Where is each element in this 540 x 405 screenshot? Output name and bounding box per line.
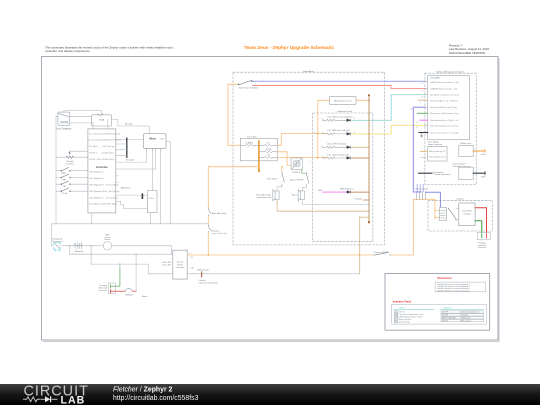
controller right stubs [116,176,119,182]
svg-text:Team Zeus - Zephyr Upgrade Sch: Team Zeus - Zephyr Upgrade Schematic [244,45,335,51]
line contactor K1 [58,112,70,125]
svg-text:FWD: FWD [61,173,66,175]
wire: - wire thick [473,172,485,174]
chassis ground tick [201,272,203,277]
wire: junction box to bus [150,213,152,224]
fuse box bus [258,141,260,170]
wire: orange main bus to charger [187,199,435,255]
svg-text:24: 24 [322,157,324,159]
wire: indicator feed rail [318,100,369,158]
motor pins [147,149,161,151]
svg-text:Horn Switch: Horn Switch [267,177,277,180]
switch FS1 [61,181,71,185]
horn LS1 [273,190,279,201]
DC/DC converter U3 [173,250,187,279]
buzzer switch [306,173,309,186]
svg-text:Connector: Connector [478,246,487,249]
svg-text:Encoder: Encoder [126,159,134,162]
svg-text:P10 Controller (Position Erro: P10 Controller (Position Error 0 plus) [396,313,424,316]
svg-text:BMS Ground: BMS Ground [198,269,209,272]
svg-text:Main Power In (Switch): Main Power In (Switch) [239,86,259,89]
fuse 5V L [259,144,277,146]
svg-text:Indicator Panel: Indicator Panel [337,110,352,113]
svg-text:Buzzer: Buzzer [292,195,298,197]
svg-text:Fi-call Aux 1 (12V) (LED logic: Fi-call Aux 1 (12V) (LED logic) [89,203,117,206]
svg-text:7 kΩ Stop Discharge (red): 7 kΩ Stop Discharge (red) [327,153,349,156]
svg-text:A Battery Overheat: A Battery Overheat [396,318,412,321]
wire: battery parallel loop [70,246,91,264]
fuse 24 BMS [240,144,259,146]
fuse box [240,138,277,161]
svg-text:Thermistors: Thermistors [437,276,453,280]
svg-text:LAB: LAB [61,394,86,405]
svg-text:Orion BMS: Orion BMS [430,76,440,79]
fuse 24 5V [259,151,277,153]
wire: purple BMS to connector [417,185,423,192]
wire: sense stubs [420,150,428,152]
wire: blue run to charger [413,107,425,192]
fuse 24 V [259,156,277,158]
svg-text:Battery Management System: Battery Management System [436,70,464,73]
main indicator circuit [330,96,357,104]
wire: green lamp to buzzer switch [302,169,307,173]
wire: pack + to DC/DC [70,253,173,255]
Zivan NG1 charger [459,203,475,226]
svg-text:Motor: Motor [149,137,156,140]
wire: charger green out [475,221,482,233]
svg-text:Zivan NG1: Zivan NG1 [462,211,472,213]
charger enclosure [428,200,492,231]
svg-text:12V/6W S: 12V/6W S [292,172,301,174]
resistor (pre-charge) wire [118,120,149,134]
buzzer LS2 [298,190,304,201]
wire: rail into ED [51,240,53,246]
svg-text:Charger ON/OFF: Charger ON/OFF [374,251,389,254]
switch FWD [61,168,71,172]
wire: CAN A with shield [116,194,148,196]
svg-text:Sevcon: Sevcon [177,262,184,264]
svg-text:Batteries: Batteries [75,250,85,253]
wire: controller to motor phase [116,138,144,140]
svg-text:24: 24 [410,109,412,111]
svg-text:+24 Encoder 1: +24 Encoder 1 [101,152,115,155]
wire: SW [56,190,88,192]
svg-text:http://circuitlab.com/c558fs3: http://circuitlab.com/c558fs3 [113,395,199,402]
tables block [385,274,490,331]
wire: fuse bus bottom to wiper branch [208,167,259,255]
svg-text:FT. Atx: FT. Atx [62,192,68,195]
switch REV [61,174,71,178]
wire: tan row3 to bus [352,146,369,148]
svg-text:24: 24 [422,96,424,98]
fuse F1 400A [92,114,112,127]
svg-text:48V/5V Power (aux switch 1) -: 48V/5V Power (aux switch 1) - En [430,81,458,84]
svg-text:Disconnect: Disconnect [53,240,63,243]
svg-text:LED (Signals) 1: LED (Signals) 1 [89,172,104,174]
svg-text:DC/5V 1: DC/5V 1 [89,153,98,155]
svg-text:400A: 400A [99,119,105,122]
svg-text:Line Contactor: Line Contactor [56,127,71,130]
svg-text:MaxTemp analysis (curr 1 pin 1: MaxTemp analysis (curr 1 pin 15) [430,124,458,127]
wire: motor B- to bus [166,142,170,224]
svg-text:TL/Studio: TL/Studio [354,197,362,200]
charger on/off switch [374,252,391,255]
wire: controller B- down [91,213,93,224]
front assy enclosure [233,72,385,245]
svg-text:ON/OFF: ON/OFF [442,312,448,314]
svg-text:controller, and display compon: controller, and display components. [45,49,91,53]
junction dots battery loop [69,245,70,246]
svg-text:DC Input: DC Input [89,145,98,148]
wire: fuse out to controller B+ [108,120,118,129]
svg-text:Fletcher / Zephyr 2: Fletcher / Zephyr 2 [113,386,173,393]
ground arrow [420,133,422,137]
svg-text:LED (Signals) 5 5V Out (R 5: LED (Signals) 5 5V Out (R 5) [89,196,117,199]
wiper switch 2 [208,225,210,232]
svg-text:Main Indicator Circuit: Main Indicator Circuit [334,99,352,102]
svg-text:100A CB: 100A CB [125,293,133,296]
svg-text:Throttle: Throttle [66,160,74,163]
svg-text:Sense Connector: Sense Connector [428,143,443,146]
wire: CAN B staircase [116,201,148,208]
wire: rail to emergency disconnect [50,224,52,240]
svg-text:CAN block 1: CAN block 1 [120,186,131,189]
svg-text:LED (Signals) 3 12V Out (Rev: LED (Signals) 3 12V Out (Rev) [89,183,118,186]
wire: row5 to bus [351,191,369,193]
wire: fuse out top to indicator row2 feed [277,134,326,146]
wiper switch 1 [208,208,210,216]
wire: brown row4 to bus [352,157,369,159]
svg-text:Main Drive A (curr 13 - 15.8): Main Drive A (curr 13 - 15.8) B R [430,100,458,103]
wire: FWD [56,170,88,172]
wire: B- return bus [51,223,208,225]
svg-text:(clear front of gnd limit): (clear front of gnd limit) [199,281,219,284]
svg-text:9: 9 [421,102,422,104]
svg-text:Main positive pin 10: Main positive pin 10 [429,150,445,153]
svg-text:Connector: Connector [98,289,107,292]
svg-text:Converter: Converter [176,266,185,269]
wire: motor pins down [152,151,160,224]
wire: throttle wiper [70,150,88,152]
indicator power bus [368,96,370,221]
throttle potentiometer [66,151,73,158]
svg-text:Warning pin 5 (dis) (temp err: Warning pin 5 (dis) (temp err 1 p) [430,112,458,115]
svg-text:(wiper On/Off switch): (wiper On/Off switch) [212,232,228,235]
wire: lower rail to ground run [91,264,148,274]
svg-text:OPTION: OPTION [442,320,449,322]
svg-text:− Wire: − Wire [480,175,486,178]
wire: orange into charger [435,199,440,219]
svg-text:15: 15 [416,127,418,129]
wire: motor sense to controller [116,151,156,169]
svg-text:NON-FINALIZED VERSION: NON-FINALIZED VERSION [449,51,485,55]
svg-text:B+ Connector (48V-58V Power In: B+ Connector (48V-58V Power In) [89,132,120,135]
wire: chassis ground run [148,273,360,275]
svg-text:Indicator Panel: Indicator Panel [393,299,412,303]
svg-text:Buzzer ON/OFF: Buzzer ON/OFF [290,178,304,181]
wire: charging red + breaker [111,290,126,292]
lamp 12V/6W [291,158,302,170]
svg-text:(short blown avail): (short blown avail) [256,196,271,199]
wire: orange main power feed [228,84,237,145]
wire: tan stub pin 4 [419,99,428,101]
schematic frame [42,57,499,341]
charging external connector J6 [477,233,490,240]
svg-text:+ Wire: + Wire [480,153,486,156]
left rail [55,116,57,224]
frame shadow [43,59,499,342]
wire: charger red out [475,208,486,233]
wire: green stub to BMS [417,112,428,114]
svg-text:LED (Signals) 2: LED (Signals) 2 [89,178,104,180]
wire: battery + top rail [56,115,92,117]
svg-text:Charger: Charger [463,213,471,215]
indicator panel enclosure [313,113,373,242]
svg-text:7 kΩ BMS Error Code (red): 7 kΩ BMS Error Code (red) [327,130,350,132]
svg-text:24 [BMS]: 24 [BMS] [246,143,253,145]
svg-text:ON/OFF: ON/OFF [442,315,448,317]
wire: REV [56,177,88,179]
svg-text:P10 BMS (Registered Error Cod: P10 BMS (Registered Error Codes) [396,316,423,319]
BMS U2 [428,76,470,140]
svg-text:Label04 | thermistor 4 measuri: Label04 | thermistor 4 measuring battery… [437,289,470,292]
svg-text:10 kΩ BHO ON (white): 10 kΩ BHO ON (white) [327,143,347,146]
svg-text:24: 24 [314,132,316,134]
svg-text:Resistor: Resistor [125,123,133,126]
wire: magenta stub to BMS [420,119,428,121]
wire: red aux to BMS [253,86,425,89]
svg-text:Sensor: Sensor [104,238,110,241]
svg-text:0 to 5K Ω: 0 to 5K Ω [65,163,74,166]
svg-text:DC/DC: DC/DC [177,264,184,266]
charger relay K2 [440,208,447,221]
svg-text:CELL 1 (curr 01-16, 17 - maj c: CELL 1 (curr 01-16, 17 - maj cell) [430,131,458,134]
BMS current sensor [103,242,111,250]
svg-text:Charger A (Pump) 1 (pin 8 - di: Charger A (Pump) 1 (pin 8 - dis) [430,106,457,109]
svg-text:24: 24 [422,83,424,85]
indicator row pin numbers [311,118,356,162]
wire: purple key-on to BMS [253,80,425,82]
BMS pin ticks [425,81,428,125]
svg-text:24 Wire: 24 Wire [148,197,154,200]
svg-text:FS1: FS1 [63,186,66,188]
svg-text:Main sign dis A (curr 13 pin 5: Main sign dis A (curr 13 pin 5 - d) [430,119,458,122]
svg-text:Fuse Box: Fuse Box [247,136,257,138]
wire: throttle ends [56,156,88,158]
wire: fuse out to lamp [277,152,291,166]
wire: tan drop to ground run [359,217,361,274]
wire: buzzer connections [303,186,370,204]
svg-text:Controller: Controller [96,166,108,169]
wire: battery + [61,246,172,254]
wire: LC coil to controller [70,123,93,129]
chassis bond [419,172,432,174]
wire: encoder signals [116,144,127,156]
BMS pin numbers [410,83,424,133]
wire: bus lower stub [359,216,369,218]
svg-text:5V L: 5V L [267,143,271,145]
svg-text:+ 24B: + 24B [190,268,194,270]
wire: horn connections [277,185,282,191]
svg-text:BMS mode: BMS mode [462,318,470,320]
svg-text:+24 Rev (Enc): +24 Rev (Enc) [101,159,114,161]
controller U1 [88,129,116,213]
svg-text:Front Assy: Front Assy [303,70,314,73]
wire: yellow row2 to BMS [352,125,425,133]
svg-text:BMS ON (green): BMS ON (green) [340,188,354,190]
svg-text:+ 24: + 24 [190,257,193,259]
svg-text:Wiper (Actuation): Wiper (Actuation) [212,212,227,215]
battery pack [74,245,83,246]
encoder bundle [126,138,128,157]
wire: FS1 [56,183,88,185]
wire: fuse out to indicator row4 feed [277,156,326,158]
main power switch [238,80,253,85]
svg-text:(+5V +9V): (+5V +9V) [162,265,171,267]
svg-text:Voltage Taps: Voltage Taps [460,142,471,145]
svg-text:24 [5V]: 24 [5V] [266,149,272,151]
svg-text:Boost: Boost [142,295,148,298]
wire: charging drop [135,254,137,291]
horn switch [282,173,285,186]
svg-text:Charger: Charger [456,198,464,201]
svg-text:+24V Out (sp): +24V Out (sp) [101,145,114,148]
wire: LC top to fuse top [64,111,102,115]
motor M1 [144,134,167,149]
svg-text:11: 11 [422,90,424,92]
wire: green charging [119,264,121,268]
svg-text:Switches: Switches [443,307,451,310]
svg-text:LED (Signals) 4(cb) (24V) (R: LED (Signals) 4(cb) (24V) (R sp) [89,191,119,193]
wire: magenta BMS ON [322,191,347,193]
junction: charging tap [135,254,136,255]
wire: + wire orange [473,150,485,152]
svg-text:7 kΩ Battery Overload (yello: 7 kΩ Battery Overload (yellow) [327,116,353,119]
svg-text:CHARGE (main) aux dis 1 - volt: CHARGE (main) aux dis 1 - volt [430,88,457,91]
junction box 24-wire [148,190,158,212]
svg-text:24: 24 [416,122,418,124]
svg-text:Main negative pin 11: Main negative pin 11 [429,156,445,159]
switch SW [61,188,71,192]
wire: pack minus thick [419,132,428,134]
wire: teal row1 to BMS [352,95,425,121]
BMS enclosure [425,73,476,184]
svg-text:DC/5V - PW: DC/5V - PW [89,159,100,161]
svg-text:Chassis (Subframe): Chassis (Subframe) [434,173,451,176]
svg-text:Aux Water Cool (ext pin 13 - B: Aux Water Cool (ext pin 13 - B sw) [430,94,459,97]
